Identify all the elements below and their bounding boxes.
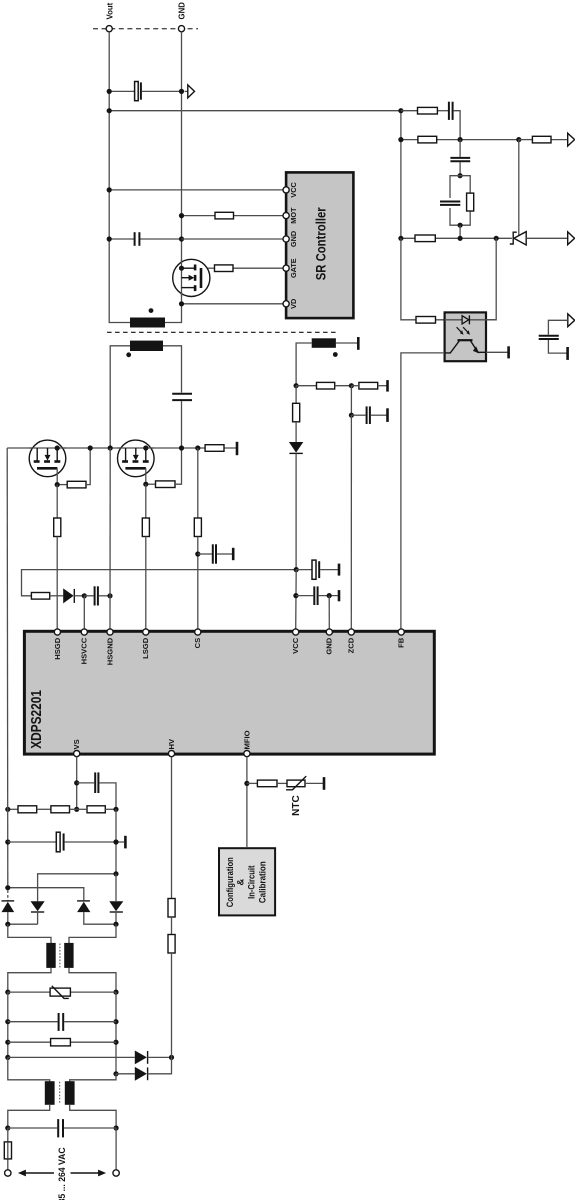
resistor R9 Q1 gate bbox=[57, 448, 90, 488]
wire row3 bbox=[401, 237, 512, 239]
node junction B row3 bbox=[458, 236, 463, 241]
resistor R21 divider bbox=[77, 806, 116, 813]
inductor L1 common-mode choke bbox=[8, 924, 116, 992]
diode D3 bridge bbox=[77, 901, 116, 924]
wire VCC rail bbox=[22, 570, 297, 596]
resistor R14 CS bbox=[194, 518, 201, 537]
svg-text:VS: VS bbox=[72, 739, 81, 749]
wire AC right column lower bbox=[115, 1128, 117, 1170]
capacitor C7 resonant bbox=[172, 394, 192, 448]
svg-text:MFIO: MFIO bbox=[242, 730, 251, 749]
pin FB of U1 bbox=[397, 629, 406, 648]
resistor R23 HV upper bbox=[168, 899, 175, 918]
ground symbol secondary bbox=[185, 85, 195, 98]
resistor R13 LSGD bbox=[142, 518, 149, 537]
svg-text:Vout: Vout bbox=[105, 2, 114, 19]
pin ZCD of U1 bbox=[347, 629, 356, 654]
diode D4 bridge bbox=[109, 874, 123, 924]
wire HSGD column bbox=[56, 485, 58, 518]
node junction VS/C13 bbox=[74, 780, 79, 785]
IC U1 XDPS2201 bbox=[24, 631, 434, 754]
wire ZCD column to pin bbox=[350, 415, 352, 629]
node bar terminal C8 bbox=[232, 548, 235, 560]
svg-text:GATE: GATE bbox=[289, 258, 298, 278]
pin MFIO of U1 bbox=[242, 730, 251, 756]
pin LSGD of U1 bbox=[141, 629, 150, 659]
node bar terminal aux bbox=[357, 337, 360, 350]
node junction HV bbox=[169, 1055, 174, 1060]
node junction HSGND on rail bbox=[108, 445, 113, 450]
svg-text:CS: CS bbox=[193, 638, 202, 649]
resistor R6 in RC loop bbox=[467, 193, 474, 211]
transistor Q3 SR MOSFET bbox=[173, 259, 210, 296]
svg-text:HSGD: HSGD bbox=[53, 637, 62, 659]
wire primary right lead bbox=[163, 346, 182, 393]
node junction VS divider bbox=[74, 807, 79, 812]
node junction Q1 drain on rail bbox=[55, 445, 60, 450]
node AC terminal right bbox=[113, 1170, 119, 1176]
resistor R10 Q2 gate bbox=[146, 448, 182, 488]
resistor R1 MOT bbox=[182, 212, 284, 219]
capacitor C11 VCC electrolytic bbox=[296, 560, 338, 579]
node junction VD bbox=[179, 301, 184, 306]
op-amp U2 SR Controller box bbox=[286, 172, 353, 318]
node junction GND/C1 bbox=[179, 89, 184, 94]
wire MFIO column bbox=[246, 757, 248, 847]
node junction VCC bulk bbox=[294, 567, 299, 572]
resistor R7 row3 bbox=[415, 235, 435, 242]
wire aux D to VCC node bbox=[295, 453, 297, 569]
node Vout terminal bbox=[105, 2, 114, 31]
capacitor C4 series column B bbox=[450, 140, 470, 176]
wire dashed isolation barrier bbox=[107, 331, 337, 333]
capacitor C13 VS bbox=[77, 772, 116, 809]
svg-text:&: & bbox=[236, 879, 246, 886]
node junction X-cap right bbox=[113, 1019, 118, 1024]
wire SR GND pin bbox=[182, 238, 284, 240]
wire opto cathode riser bbox=[470, 238, 496, 319]
node junction CS on rail bbox=[195, 445, 200, 450]
wire aux right lead bbox=[336, 342, 357, 344]
wire bulk right column upper bbox=[115, 809, 117, 874]
resistor R25 NTC series bbox=[247, 780, 287, 787]
node junction AC2 bbox=[113, 922, 118, 927]
node junction A top bbox=[398, 108, 403, 113]
node junction D6 left bbox=[113, 1071, 118, 1076]
wire LSGD column lower bbox=[145, 537, 147, 630]
node junction GND/C12 bbox=[327, 593, 332, 598]
varistor RV1 bbox=[8, 986, 116, 999]
wire HV mid bbox=[171, 917, 173, 935]
node junction HSGND/C9 bbox=[107, 593, 112, 598]
node junction varistor left bbox=[5, 990, 10, 995]
node junction D row3 bbox=[494, 236, 499, 241]
node bar terminal C6 bbox=[566, 347, 569, 360]
capacitor C8 CS filter bbox=[198, 544, 232, 563]
node bar terminal C11 bbox=[338, 564, 341, 576]
node junction C row2 bbox=[516, 137, 521, 142]
diode ZD1 zener bbox=[510, 232, 568, 245]
node junction C16 left bbox=[5, 1125, 10, 1130]
diode D7 bootstrap bbox=[63, 588, 84, 603]
node junction varistor right bbox=[113, 990, 118, 995]
resistor R20 divider bbox=[51, 806, 77, 813]
node junction bridge D4 top bbox=[113, 871, 118, 876]
inductor L2 common-mode choke bbox=[8, 1057, 116, 1128]
node junction CS filter bbox=[195, 551, 200, 556]
wire C down to zener bbox=[518, 140, 520, 236]
resistor R22 discharge bbox=[8, 1039, 116, 1046]
node junction Vout rail bbox=[107, 108, 112, 113]
thermistor RT1 NTC bbox=[286, 776, 323, 816]
wire dashed D1 link bbox=[7, 890, 9, 900]
wire bridge D3 branch bbox=[8, 888, 84, 901]
wire top-right node column A bbox=[400, 111, 402, 239]
svg-text:MOT: MOT bbox=[289, 207, 298, 224]
node arrow terminal row2 bbox=[568, 133, 575, 146]
svg-text:VCC: VCC bbox=[291, 637, 300, 654]
svg-text:HSGND: HSGND bbox=[105, 637, 114, 665]
wire HV lower bbox=[171, 953, 173, 1057]
node junction A row2 bbox=[398, 137, 403, 142]
wire half-bridge rail bbox=[7, 447, 236, 449]
node bar terminal rail bbox=[236, 442, 239, 455]
svg-text:Configuration: Configuration bbox=[225, 857, 235, 907]
svg-text:GND: GND bbox=[178, 2, 187, 20]
capacitor C1 output electrolytic bbox=[109, 82, 181, 101]
capacitor C3 snubber bbox=[449, 102, 460, 140]
wire LSGD column bbox=[145, 484, 147, 518]
wire primary left lead bbox=[110, 346, 130, 448]
svg-text:SR Controller: SR Controller bbox=[313, 207, 329, 280]
resistor R17 ZCD to bar bbox=[351, 382, 386, 389]
diode D2 bridge bbox=[31, 901, 45, 924]
node junction R22 right bbox=[113, 1040, 118, 1045]
wire CS column bbox=[197, 448, 199, 518]
wire aux left lead bbox=[296, 343, 312, 386]
label 85...264 VAC with arrow bbox=[18, 1147, 106, 1200]
resistor R19 divider bbox=[8, 806, 51, 813]
diode D8 aux rectifier bbox=[289, 442, 303, 453]
node junction VCC/C12 bbox=[293, 593, 298, 598]
opto-coupler U3 bbox=[445, 312, 496, 361]
node arrow terminal aux top-right bbox=[568, 314, 575, 327]
node junction ZCD cap bbox=[349, 413, 354, 418]
resistor R18 aux bbox=[293, 403, 300, 422]
diode D1 bridge bbox=[2, 901, 15, 924]
svg-text:In-Circuit: In-Circuit bbox=[247, 866, 257, 899]
node junction B RC bottom bbox=[458, 223, 463, 228]
node junction HSVCC bbox=[82, 593, 87, 598]
diode D6 HV bbox=[116, 1057, 172, 1080]
wire feedback divider row bbox=[401, 139, 519, 141]
wire SR VD pin bbox=[182, 303, 284, 305]
capacitor C12 VCC ceramic bbox=[296, 586, 338, 605]
node junction ZCD row mid bbox=[349, 383, 354, 388]
svg-text:GND: GND bbox=[325, 637, 334, 654]
node AC terminal left bbox=[5, 1170, 11, 1176]
wire aux rectifier column bbox=[295, 386, 297, 404]
transformer T1 primary winding bbox=[126, 341, 163, 358]
svg-text:Calibration: Calibration bbox=[257, 861, 267, 903]
capacitor C14 bulk electrolytic bbox=[8, 832, 125, 852]
capacitor C9 bootstrap bbox=[84, 586, 110, 605]
pin CS of U1 bbox=[193, 629, 202, 648]
diode D5 HV bbox=[8, 1051, 172, 1065]
resistor R11 rail sense bbox=[205, 445, 224, 452]
wire Vout vertical rail bbox=[109, 32, 130, 323]
node bar terminal C14 bbox=[124, 836, 127, 849]
resistor R5 to terminal bbox=[519, 136, 568, 143]
wire CS column lower bbox=[197, 537, 199, 630]
wire ZCD column upper bbox=[350, 386, 352, 416]
block configuration box bbox=[219, 848, 275, 915]
svg-text:HV: HV bbox=[167, 738, 176, 749]
transformer T1 aux winding bbox=[312, 338, 338, 357]
resistor R3 snubber top bbox=[401, 107, 448, 114]
node bar terminal ZCD row bbox=[386, 380, 389, 392]
wire VS pin column bbox=[76, 757, 78, 810]
svg-text:HSVCC: HSVCC bbox=[80, 637, 89, 664]
node junction GND/R1 bbox=[179, 213, 184, 218]
node junction AC1 bbox=[5, 922, 10, 927]
capacitor C6 top-right bbox=[539, 320, 568, 353]
wire bridge top AC2 bbox=[38, 874, 116, 901]
node bar terminal NTC bbox=[323, 777, 326, 790]
pin VS of U1 bbox=[72, 739, 81, 756]
node bar terminal C12 bbox=[338, 590, 341, 601]
svg-text:XDPS2201: XDPS2201 bbox=[29, 690, 45, 749]
svg-text:VCC: VCC bbox=[289, 181, 298, 197]
node junction R9 on rail bbox=[88, 445, 93, 450]
pin HSVCC of U1 bbox=[80, 629, 89, 664]
wire bridge AC1 bbox=[8, 923, 38, 925]
node junction bulk/C14 right bbox=[113, 839, 118, 844]
fuse F1 bbox=[4, 1128, 11, 1170]
node junction X-cap left bbox=[5, 1019, 10, 1024]
node junction C16 right bbox=[114, 1125, 119, 1130]
wire opto emitter to bar bbox=[486, 351, 508, 353]
node junction divider right bbox=[113, 807, 118, 812]
svg-text:VD: VD bbox=[289, 299, 298, 309]
node junction Q2 drain on rail bbox=[143, 445, 148, 450]
wire HSVCC to pin bbox=[83, 596, 85, 629]
svg-text:NTC: NTC bbox=[291, 795, 302, 816]
node junction divider left bbox=[5, 807, 10, 812]
node junction bridge D1 top bbox=[5, 885, 10, 890]
resistor R8 opto anode bbox=[401, 238, 458, 323]
capacitor C16 X-cap input bbox=[8, 1119, 116, 1137]
node junction Vout/SRVCC bbox=[107, 187, 112, 192]
pin GND of U2 bbox=[283, 231, 298, 247]
resistor R16 ZCD upper bbox=[296, 382, 351, 389]
node junction bulk/C14 left bbox=[5, 839, 10, 844]
node junction Vout/C2 bbox=[107, 236, 112, 241]
pin HSGND of U1 bbox=[105, 629, 114, 665]
wire aux R to D bbox=[295, 422, 297, 442]
capacitor C5 in RC loop bbox=[440, 202, 460, 205]
resistor R2 gate SR bbox=[201, 265, 283, 272]
transformer T1 secondary winding bbox=[130, 308, 165, 327]
node junction R22 left bbox=[5, 1040, 10, 1045]
wire VCC column lower bbox=[295, 570, 298, 629]
node arrow terminal row3 bbox=[568, 232, 575, 245]
pin MOT of U2 bbox=[283, 207, 298, 224]
node junction B row2 bbox=[458, 137, 463, 142]
capacitor C2 Vout-GND small bbox=[109, 232, 181, 246]
pin VCC of U1 bbox=[291, 629, 300, 654]
node junction MFIO/NTC bbox=[244, 781, 249, 786]
svg-text:85 ... 264 VAC: 85 ... 264 VAC bbox=[56, 1147, 67, 1200]
pin VD of U2 bbox=[283, 299, 298, 309]
resistor R15 bootstrap bbox=[31, 593, 49, 600]
wire HSGD column lower bbox=[56, 537, 58, 630]
svg-text:LSGD: LSGD bbox=[141, 637, 150, 659]
node junction Q1 gate bbox=[55, 482, 60, 487]
wire dashed terminal strip bbox=[93, 28, 198, 30]
pin GATE of U2 bbox=[283, 258, 298, 278]
node junction Q3 drain bbox=[179, 266, 184, 271]
pin GND of U1 bbox=[325, 629, 334, 655]
node bar terminal C10 bbox=[386, 408, 389, 422]
transistor Q2 low-side MOSFET bbox=[118, 440, 155, 484]
wire opto collector to FB bbox=[401, 353, 445, 629]
node bar terminal opto emitter bbox=[507, 346, 510, 358]
wire bootstrap R to D bbox=[50, 595, 64, 597]
wire HSGND column bbox=[109, 448, 111, 629]
wire GND pin column bbox=[328, 596, 330, 629]
node junction GND/C2 bbox=[179, 236, 184, 241]
node junction A row3 bbox=[398, 236, 403, 241]
node GND terminal bbox=[178, 2, 187, 32]
node junction Vout/C1 bbox=[107, 89, 112, 94]
wire bulk left column bbox=[6, 448, 9, 890]
svg-text:FB: FB bbox=[397, 637, 406, 648]
resistor R4 row2 bbox=[418, 136, 437, 143]
pin HSGD of U1 bbox=[53, 629, 62, 660]
wire AC column right mid bbox=[115, 992, 117, 1074]
resistor R12 HSGD bbox=[54, 518, 61, 537]
pin HV of U1 bbox=[167, 738, 176, 757]
transistor Q1 high-side MOSFET bbox=[29, 440, 66, 485]
wire Vout output rail to right bbox=[109, 110, 401, 112]
pin VCC of U2 bbox=[283, 181, 298, 197]
node junction B RC top bbox=[458, 173, 463, 178]
wire AC column left mid bbox=[7, 992, 9, 1057]
wire B bottom to row3 bbox=[459, 225, 461, 238]
capacitor C15 X-cap bbox=[8, 1013, 116, 1031]
node junction D5 left bbox=[5, 1055, 10, 1060]
wire SR VCC to Vout bbox=[109, 189, 283, 191]
wire HV pin column bbox=[171, 757, 173, 899]
resistor R24 HV lower bbox=[168, 935, 175, 954]
node junction ZCD row left bbox=[294, 383, 299, 388]
wire RC parallel loop bbox=[450, 176, 470, 226]
capacitor C10 ZCD bbox=[351, 406, 386, 424]
node junction C7 on rail bbox=[179, 445, 184, 450]
node junction Q2 gate bbox=[143, 482, 148, 487]
svg-text:GND: GND bbox=[289, 231, 298, 247]
svg-text:ZCD: ZCD bbox=[347, 637, 356, 653]
wire GND vertical rail bbox=[165, 32, 182, 323]
